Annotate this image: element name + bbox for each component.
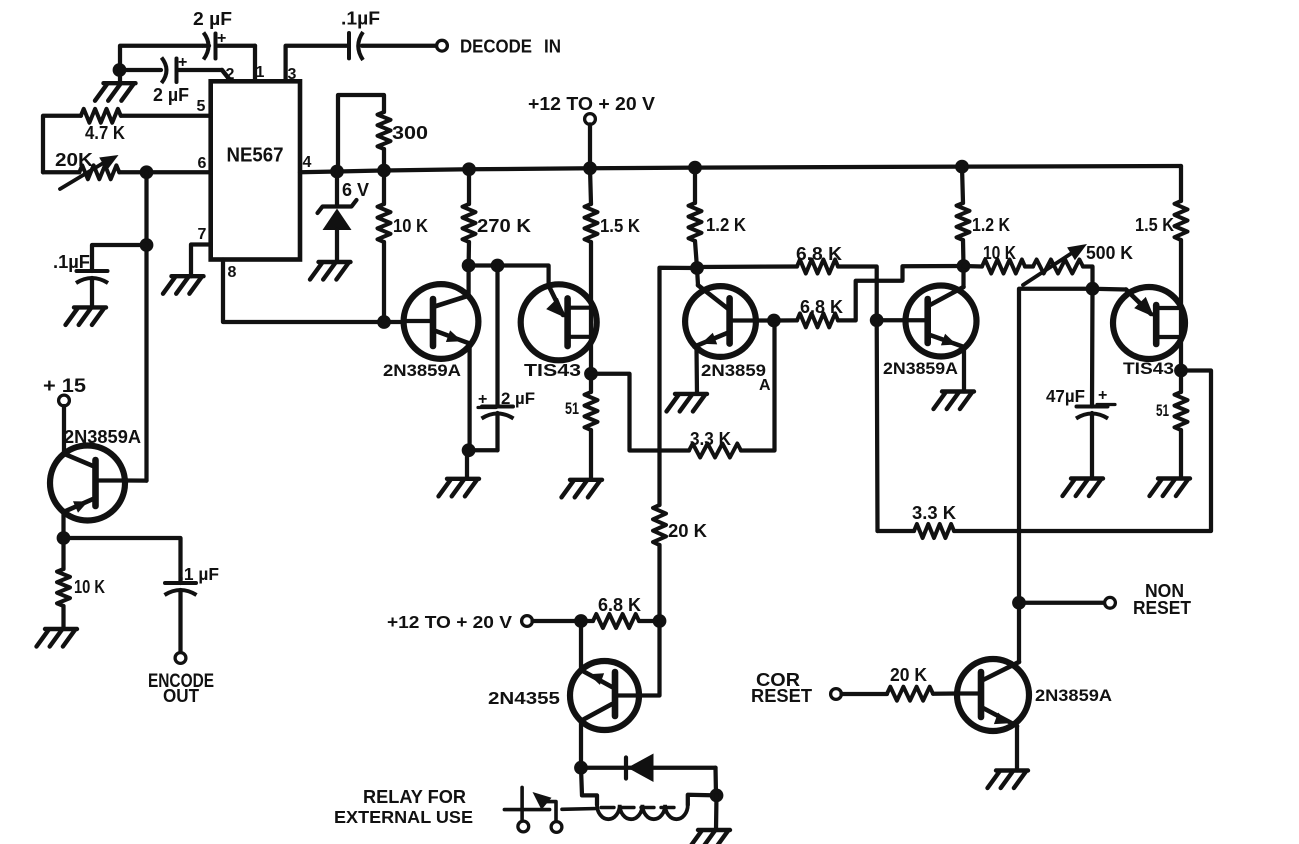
wire node B down to Q1 base xyxy=(144,172,148,480)
node rail-supply1 xyxy=(583,161,597,175)
node P (supply/Q6 emitter) xyxy=(574,614,588,628)
node J (Q3 base) xyxy=(767,314,781,328)
svg-text:+12 TO + 20 V: +12 TO + 20 V xyxy=(387,612,512,632)
node rail-1.2Kb xyxy=(955,160,969,174)
wire pin 8 to Q1 base row xyxy=(223,260,404,323)
svg-text:IN: IN xyxy=(544,36,561,57)
ground (C6) xyxy=(1063,479,1104,497)
label R16 1.5K xyxy=(1135,215,1174,235)
svg-text:RELAY FOR: RELAY FOR xyxy=(363,787,466,807)
svg-text:DECODE: DECODE xyxy=(460,36,532,57)
terminal DECODE IN xyxy=(437,40,448,51)
wire 300 to rail xyxy=(382,149,386,171)
svg-text:6.8 K: 6.8 K xyxy=(796,244,842,264)
wire 51 to ground xyxy=(589,430,593,480)
wire Q3 collector xyxy=(697,268,698,285)
pin number 6 xyxy=(198,155,207,172)
svg-text:RESET: RESET xyxy=(1133,598,1191,618)
wire Q5 emitter feed xyxy=(1093,287,1127,292)
wire supply to rail xyxy=(588,124,592,168)
wire R12 jog to Q4 collector node xyxy=(838,266,964,320)
label R4 10K xyxy=(393,216,428,236)
wire R11 to Q4 base node xyxy=(838,267,877,321)
wire pin 5 row xyxy=(43,116,211,173)
label Q2 TIS43 xyxy=(524,360,581,380)
svg-text:6.8 K: 6.8 K xyxy=(800,297,843,317)
terminal NON RESET xyxy=(1105,597,1116,608)
resistor R9 1.2K xyxy=(689,168,702,241)
node L (Q4 collector) xyxy=(957,259,971,273)
svg-text:NE567: NE567 xyxy=(227,145,284,167)
wire 3.3K to Q3 base node xyxy=(741,321,775,451)
svg-text:A: A xyxy=(759,377,771,394)
wire Q2 B1 to 3.3K xyxy=(591,374,689,451)
node N (Q5 B1) xyxy=(1174,364,1188,378)
label R12 6.8K xyxy=(800,297,843,317)
transistor Q7 2N3859A xyxy=(957,659,1029,731)
wire C2 to pin 2 xyxy=(178,70,232,81)
terminal +15 xyxy=(59,395,70,406)
svg-text:500 K: 500 K xyxy=(1086,243,1133,263)
ground (R7) xyxy=(562,480,603,498)
transistor Q0 2N3859A xyxy=(50,446,125,521)
svg-text:10 K: 10 K xyxy=(74,577,105,597)
transistor Q3 2N3859A xyxy=(685,285,774,357)
label R20 6.8K xyxy=(598,595,641,615)
label R7 51 xyxy=(565,399,579,418)
svg-text:51: 51 xyxy=(1156,401,1169,420)
label R13 1.2K xyxy=(972,215,1010,235)
wire Q4 base column down xyxy=(875,320,880,531)
capacitor C7 .1uF xyxy=(165,583,197,653)
svg-text:+12 TO + 20 V: +12 TO + 20 V xyxy=(528,94,655,114)
wire top loop from pin 1 to ground via C1 xyxy=(120,46,255,70)
pin number 5 xyxy=(197,98,206,115)
wire C5 column xyxy=(495,266,499,407)
wire 6.8K to base node xyxy=(639,619,660,623)
svg-text:2N3859A: 2N3859A xyxy=(1035,686,1112,705)
transistor Q2 TIS43 (UJT) xyxy=(521,284,597,360)
label R1 4.7K xyxy=(85,123,125,143)
node T (emitter/10K/encode) xyxy=(57,531,71,545)
resistor R6 1.5K xyxy=(585,168,598,242)
resistor R11 6.8K (upper) xyxy=(697,260,838,274)
label R21 10K xyxy=(74,577,105,597)
label C1 2uF xyxy=(193,8,232,29)
capacitor C5 2uF xyxy=(482,407,514,451)
label R6 1.5K xyxy=(600,216,640,236)
resistor R1 4.7K xyxy=(81,109,121,123)
resistor R16 1.5K xyxy=(1175,166,1188,240)
svg-text:.1µF: .1µF xyxy=(341,9,380,29)
label Q4 2N3859A xyxy=(883,359,958,378)
svg-text:2N3859: 2N3859 xyxy=(701,361,766,380)
resistor R8 3.3K xyxy=(689,444,741,458)
node A (C1/C2/ground junction) xyxy=(113,63,127,77)
svg-text:.1µF: .1µF xyxy=(53,252,90,272)
switch S1 (relay contacts) xyxy=(504,787,597,820)
label Q3 2N3859 xyxy=(701,361,771,394)
wire zener to ground xyxy=(335,230,339,262)
label C4 .1uF xyxy=(53,252,90,272)
wire Q7 collector xyxy=(1017,603,1021,662)
wire 300 feed loop xyxy=(338,95,384,172)
svg-text:.1 µF: .1 µF xyxy=(179,564,219,584)
ground (Q1 emitter) xyxy=(439,479,480,497)
IC U1 NE567 xyxy=(211,81,300,259)
label Q5 TIS43 xyxy=(1123,359,1174,378)
node S (coil right) xyxy=(710,789,724,803)
node D (10K bottom on base row) xyxy=(377,315,391,329)
wire 10K to ground xyxy=(61,606,65,629)
node rail-zener xyxy=(330,165,344,179)
wire pin 6 row xyxy=(43,170,211,174)
svg-text:3.3 K: 3.3 K xyxy=(690,429,731,449)
ground (R21) xyxy=(37,629,78,647)
wire 10K to base row xyxy=(382,242,386,322)
capacitor C3 .1uF (decode in) xyxy=(349,32,363,60)
svg-text:10 K: 10 K xyxy=(393,216,428,236)
svg-text:3.3 K: 3.3 K xyxy=(912,503,956,523)
label +12 TO +20V (top) xyxy=(528,94,655,114)
svg-text:2 µF: 2 µF xyxy=(501,389,535,408)
svg-text:270 K: 270 K xyxy=(477,216,531,236)
svg-text:2: 2 xyxy=(226,66,235,83)
svg-text:TIS43: TIS43 xyxy=(524,360,581,380)
svg-text:1.5 K: 1.5 K xyxy=(600,216,640,236)
svg-text:6: 6 xyxy=(198,155,207,172)
capacitor C4 .1uF xyxy=(76,271,108,307)
wire 1.2K to node I xyxy=(695,241,697,268)
svg-text:TIS43: TIS43 xyxy=(1123,359,1174,378)
svg-text:OUT: OUT xyxy=(163,686,199,706)
svg-text:1.5 K: 1.5 K xyxy=(1135,215,1174,235)
svg-text:7: 7 xyxy=(198,226,207,243)
wire node M row to long vertical xyxy=(1019,289,1093,603)
label R5 270K xyxy=(477,216,531,236)
resistor R10 20K (vertical) xyxy=(653,505,666,545)
terminal COR RESET xyxy=(831,689,842,700)
wire to NON RESET terminal xyxy=(1019,601,1105,605)
resistor R18 3.3K xyxy=(914,524,954,538)
node rail-270K xyxy=(462,162,476,176)
node O (NON RESET) xyxy=(1012,596,1026,610)
wire 1.2K to node L xyxy=(961,240,966,266)
svg-text:1.2 K: 1.2 K xyxy=(706,215,746,235)
relay coil K1 xyxy=(581,768,717,820)
svg-text:2N3859A: 2N3859A xyxy=(883,359,958,378)
label R9 1.2K xyxy=(706,215,746,235)
wire 20K to Q7 base xyxy=(933,691,957,695)
label C7 .1uF xyxy=(179,564,219,584)
wire Q4 emitter to ground xyxy=(962,347,966,392)
svg-text:1.2 K: 1.2 K xyxy=(972,215,1010,235)
label R2 20K xyxy=(55,149,94,170)
svg-text:4: 4 xyxy=(303,154,312,171)
terminal switch pole 2 xyxy=(551,822,562,833)
ground (pin 7) xyxy=(163,276,204,294)
svg-text:2 µF: 2 µF xyxy=(153,85,189,105)
resistor R12 6.8K (lower) xyxy=(774,313,838,327)
terminal +12 supply 1 xyxy=(585,114,596,125)
terminal ENCODE OUT xyxy=(175,653,186,664)
label ENCODE OUT xyxy=(148,671,214,706)
potentiometer R15 500K xyxy=(1023,244,1087,285)
label R3 300 xyxy=(392,123,428,143)
wire Q5 B1 to 3.3K row xyxy=(954,371,1211,532)
zener diode D1 6V xyxy=(318,200,357,230)
resistor R21 10K xyxy=(57,538,70,606)
label R14 10K xyxy=(983,243,1016,263)
wire Q4 collector xyxy=(961,266,965,287)
wire Q6 emitter lead xyxy=(579,621,583,670)
pin number 3 xyxy=(288,66,297,83)
wire 1.5K to Q5 B1 node xyxy=(1179,240,1183,371)
ground (R17) xyxy=(1150,479,1191,497)
label COR RESET xyxy=(751,670,812,706)
wire Q1 collector xyxy=(466,266,470,296)
potentiometer R2 20K xyxy=(60,155,119,189)
wire coil to ground xyxy=(714,795,719,830)
node M (pot / 47uF) xyxy=(1086,282,1100,296)
label C6 47uF xyxy=(1046,386,1115,406)
svg-text:EXTERNAL USE: EXTERNAL USE xyxy=(334,807,473,827)
node I (Q3 collector) xyxy=(690,261,704,275)
capacitor C2 2uF (lower) xyxy=(120,54,188,83)
label C3 .1uF xyxy=(341,9,380,29)
node E (Q1 collector / 270K) xyxy=(462,259,476,273)
resistor R19 20K xyxy=(887,687,933,701)
ground (Q7 emitter) xyxy=(988,771,1029,789)
label NON RESET xyxy=(1133,581,1191,618)
svg-text:2 µF: 2 µF xyxy=(193,8,232,29)
pin number 1 xyxy=(256,64,265,81)
wire base column xyxy=(618,621,660,696)
label +12 TO +20V (lower) xyxy=(387,612,512,632)
wire Q7 emitter to ground xyxy=(1015,726,1019,771)
wire supply rail from pin 4 xyxy=(300,166,1181,172)
label RELAY FOR EXTERNAL USE xyxy=(334,787,473,827)
wire COR terminal to 20K xyxy=(842,692,888,696)
label Q1 2N3859A xyxy=(383,361,461,380)
resistor R17 51 xyxy=(1175,371,1188,431)
wire diode to coil right xyxy=(713,768,718,796)
wire C3 to DECODE IN xyxy=(362,44,437,48)
svg-text:10 K: 10 K xyxy=(983,243,1016,263)
wire 51 to ground xyxy=(1179,430,1183,479)
resistor R4 10K xyxy=(378,171,391,243)
wire supply to node P xyxy=(533,619,577,623)
wire Q3 emitter to ground xyxy=(694,349,699,394)
ground (C4) xyxy=(66,307,107,325)
ground (Q3 emitter) xyxy=(667,394,708,412)
label R19 20K xyxy=(890,665,927,685)
svg-text:8: 8 xyxy=(228,264,237,281)
node F (C5 top) xyxy=(491,259,505,273)
pin number 2 xyxy=(226,66,235,83)
svg-text:300: 300 xyxy=(392,123,428,143)
node C (.1uF branch) xyxy=(140,238,154,252)
svg-text:+: + xyxy=(478,391,487,408)
label Q0 2N3859A xyxy=(64,427,141,447)
pin number 7 xyxy=(198,226,207,243)
resistor R13 1.2K xyxy=(957,167,970,240)
wire zener lead xyxy=(335,172,339,206)
label R15 500K xyxy=(1086,243,1133,263)
wire to ground (Q1) xyxy=(465,450,469,479)
wire Q1 emitter to ground row xyxy=(470,344,498,451)
svg-text:47µF: 47µF xyxy=(1046,386,1085,406)
svg-text:20K: 20K xyxy=(55,149,94,170)
transistor Q4 2N3859A xyxy=(877,286,977,357)
node G (emitter/C5 bottom) xyxy=(462,443,476,457)
label C5 +2uF xyxy=(478,389,535,408)
wire pin 3 to C3 xyxy=(286,46,348,82)
label R18 3.3K xyxy=(912,503,956,523)
terminal switch pole 1 xyxy=(518,821,529,832)
node rail-10K xyxy=(377,164,391,178)
transistor Q1 2N3859A xyxy=(404,284,479,359)
svg-text:6 V: 6 V xyxy=(342,180,369,200)
pin number 8 xyxy=(228,264,237,281)
wire node I to 20K column xyxy=(660,268,698,505)
node H (Q2 B1) xyxy=(584,367,598,381)
wire pot to node M xyxy=(1083,267,1093,289)
wire Q6 collector down xyxy=(579,721,583,768)
terminal +12 supply 2 xyxy=(522,616,533,627)
label R17 51 xyxy=(1156,401,1169,420)
svg-text:5: 5 xyxy=(197,98,206,115)
svg-text:2N3859A: 2N3859A xyxy=(383,361,461,380)
resistor R14 10K xyxy=(964,260,1026,274)
resistor R20 6.8K xyxy=(581,614,639,628)
wire pin 1 lead xyxy=(253,46,257,82)
label R8 3.3K xyxy=(690,429,731,449)
capacitor C6 47uF xyxy=(1076,289,1108,479)
wire 20K to 6.8K node xyxy=(657,545,661,621)
wire Q0 emitter xyxy=(61,512,65,538)
svg-text:3: 3 xyxy=(288,66,297,83)
wire 270K to node E xyxy=(466,242,471,266)
wire node E to Q2 emitter xyxy=(469,266,549,286)
wire to C4 xyxy=(92,245,147,271)
ground (Q4 emitter) xyxy=(934,392,975,410)
label R11 6.8K xyxy=(796,244,842,264)
svg-text:2N4355: 2N4355 xyxy=(488,688,560,708)
svg-text:2N3859A: 2N3859A xyxy=(64,427,141,447)
node rail-1.2K xyxy=(688,161,702,175)
svg-text:20 K: 20 K xyxy=(668,521,707,541)
label C2 2uF xyxy=(153,85,189,105)
node K (Q4 base) xyxy=(870,313,884,327)
ground (relay) xyxy=(690,830,731,844)
svg-text:20 K: 20 K xyxy=(890,665,927,685)
svg-text:RESET: RESET xyxy=(751,686,812,706)
node R (collector/diode/coil) xyxy=(574,761,588,775)
resistor R7 51 xyxy=(585,374,598,430)
label Q7 2N3859A xyxy=(1035,686,1112,705)
wire node T to C7 xyxy=(64,538,181,583)
capacitor C1 2uF (top) xyxy=(204,30,227,60)
label Q6 2N4355 xyxy=(488,688,560,708)
svg-text:+: + xyxy=(1098,387,1107,404)
diode D2 (relay clamp) xyxy=(581,754,716,783)
wire +15 to Q0 collector xyxy=(62,406,66,454)
label D1 6V xyxy=(342,180,369,200)
svg-text:4.7 K: 4.7 K xyxy=(85,123,125,143)
pin number 4 xyxy=(303,154,312,171)
label R10 20K xyxy=(668,521,707,541)
node Q (base node) xyxy=(653,614,667,628)
label DECODE IN xyxy=(460,36,561,57)
svg-text:1: 1 xyxy=(256,64,265,81)
label +15 xyxy=(43,376,86,397)
wire Q0 base xyxy=(125,478,147,482)
transistor Q5 TIS43 (UJT) xyxy=(1113,287,1185,359)
svg-text:+ 15: + 15 xyxy=(43,376,86,397)
resistor R5 270K xyxy=(463,169,476,242)
wire pin 7 lead xyxy=(191,245,211,277)
wire 1.5K to Q2 B1 node xyxy=(589,242,593,374)
svg-text:+: + xyxy=(217,30,226,47)
wire 3.3K to Q4 base column xyxy=(878,529,915,533)
node B (pin6 junction) xyxy=(140,165,154,179)
transistor Q6 2N4355 xyxy=(570,661,639,730)
svg-text:51: 51 xyxy=(565,399,579,418)
ground (C1/C2) xyxy=(95,70,136,101)
ground (zener) xyxy=(310,262,351,280)
svg-text:6.8 K: 6.8 K xyxy=(598,595,641,615)
resistor R3 300 xyxy=(378,112,391,149)
